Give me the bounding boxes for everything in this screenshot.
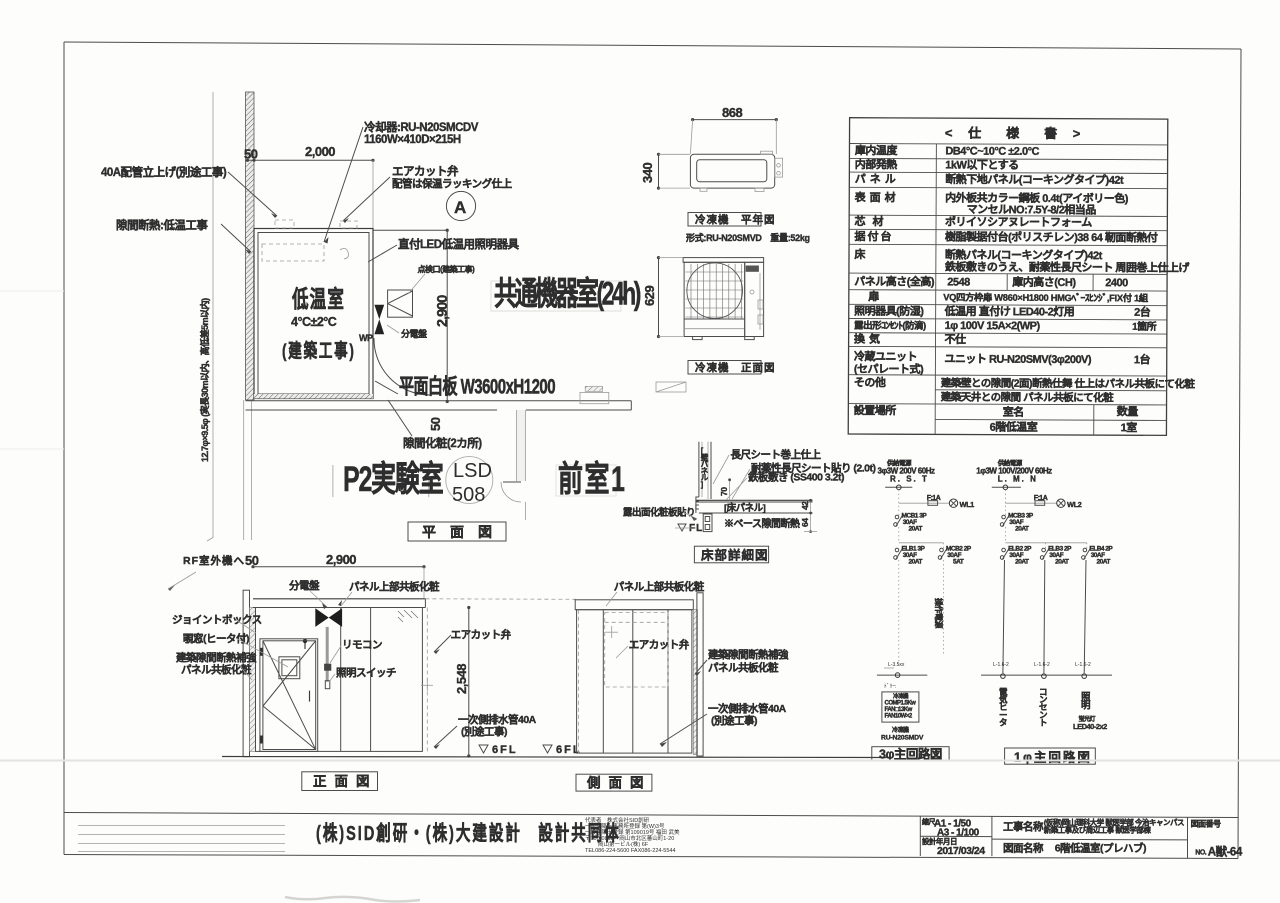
svg-text:20AT: 20AT: [1015, 559, 1029, 566]
svg-text:3φ主回路図: 3φ主回路図: [879, 746, 942, 761]
svg-text:リモコン: リモコン: [342, 639, 382, 651]
svg-text:1160W×410D×215H: 1160W×410D×215H: [364, 134, 461, 146]
svg-text:平面白板 W3600xH1200: 平面白板 W3600xH1200: [399, 374, 555, 398]
svg-text:70: 70: [719, 487, 729, 496]
svg-text:パネル上部共板化粧: パネル上部共板化粧: [614, 580, 705, 593]
small rects on wall near anteroom: [580, 392, 609, 403]
node: 1phi load terminals: [981, 674, 1112, 679]
svg-text:2400: 2400: [1105, 277, 1128, 289]
svg-text:代表者 株式会社SID創研: 代表者 株式会社SID創研: [585, 816, 650, 824]
svg-text:1kW以下とする: 1kW以下とする: [945, 158, 1018, 171]
svg-text:据付台: 据付台: [854, 229, 893, 243]
svg-text:マンセルNO:7.5Y-8/2相当品: マンセルNO:7.5Y-8/2相当品: [967, 202, 1097, 217]
svg-text:A獣-64: A獣-64: [1208, 845, 1243, 859]
svg-text:12.7φ×9.5φ (実長30m以内、高低差5m以内): 12.7φ×9.5φ (実長30m以内、高低差5m以内): [199, 298, 210, 462]
lamp WL1: [949, 499, 974, 509]
svg-text:床部詳細図: 床部詳細図: [701, 548, 769, 563]
svg-text:WL2: WL2: [1067, 500, 1082, 509]
wire: heater drop: [1003, 560, 1005, 673]
svg-text:点検口(建築工事): 点検口(建築工事): [418, 264, 476, 274]
wire: 3phi main drop: [898, 490, 900, 516]
svg-text:数量: 数量: [1117, 404, 1139, 418]
fuse F1A (3phi): [927, 495, 941, 505]
svg-text:換気: 換気: [854, 332, 884, 346]
svg-text:冷蔵ユニット: 冷蔵ユニット: [854, 349, 917, 363]
svg-text:樹脂製据付台(ポリスチレン)38 64 靭面断熱付: 樹脂製据付台(ポリスチレン)38 64 靭面断熱付: [945, 229, 1158, 244]
side view: [575, 600, 693, 610]
svg-text:低温室: 低温室: [291, 285, 345, 313]
wall panel section: [698, 442, 700, 497]
svg-text:パネル上部共板化粧: パネル上部共板化粧: [349, 580, 440, 593]
svg-text:1箇所: 1箇所: [1132, 320, 1157, 333]
svg-text:内外板共カラー鋼板 0.4t(アイボリー色): 内外板共カラー鋼板 0.4t(アイボリー色): [945, 190, 1129, 205]
svg-text:ポリイソシアヌレートフォーム: ポリイソシアヌレートフォーム: [945, 214, 1092, 229]
svg-text:50: 50: [428, 417, 443, 431]
svg-text:40A配管立上げ(別途工事): 40A配管立上げ(別途工事): [101, 165, 227, 179]
front view: top cap: [253, 598, 425, 600]
title: 3phi main circuit: [872, 746, 949, 761]
svg-text:(セパレート式): (セパレート式): [854, 362, 924, 376]
dims 42 / 64: [810, 500, 812, 531]
scale / date cells: [919, 816, 921, 856]
wall hatch: bottom wall insulation strip: [254, 394, 373, 399]
svg-text:L-1.6-2: L-1.6-2: [993, 662, 1009, 668]
door arc of cold room: [374, 338, 430, 395]
door front view: [260, 639, 318, 752]
svg-text:内部発熱: 内部発熱: [855, 157, 898, 171]
breaker MCB1 3P: [894, 513, 928, 533]
title: plan view: [408, 522, 506, 541]
svg-text:冷凍機: 冷凍機: [893, 692, 909, 700]
window in door: [279, 657, 300, 679]
title: 1phi main circuit: [1005, 748, 1096, 764]
svg-text:50: 50: [244, 147, 258, 162]
svg-text:6階低温室(プレハブ): 6階低温室(プレハブ): [1055, 842, 1146, 855]
svg-text:COMP1.5Kw: COMP1.5Kw: [885, 701, 917, 707]
svg-text:(株)SID創研・(株)大建設計 設計共同体: (株)SID創研・(株)大建設計 設計共同体: [316, 820, 621, 844]
svg-text:6階低温室: 6階低温室: [990, 420, 1038, 434]
title: floor detail: [694, 546, 768, 563]
node: 1-phase supply labels: [976, 458, 1052, 484]
svg-text:庫内温度: 庫内温度: [855, 143, 899, 157]
svg-text:照明: 照明: [1081, 692, 1091, 711]
svg-text:パネル: パネル: [855, 173, 900, 186]
svg-text:長尺シート巻上仕上: 長尺シート巻上仕上: [731, 448, 822, 461]
door leaf anteroom: [503, 481, 521, 483]
load box: refrigerator unit: [882, 692, 919, 722]
svg-text:建築壁との隙間(2面)断熱仕舞 仕上はパネル共板にて化粧: 建築壁との隙間(2面)断熱仕舞 仕上はパネル共板にて化粧: [940, 376, 1196, 390]
svg-text:露出形ｺﾝｾﾝﾄ(防滴): 露出形ｺﾝｾﾝﾄ(防滴): [854, 320, 926, 332]
feet: [693, 337, 703, 340]
ground line: [222, 757, 890, 758]
svg-text:冷凍機: 冷凍機: [892, 726, 909, 734]
svg-text:パネル高さ(全高): パネル高さ(全高): [854, 274, 935, 288]
hinges: [260, 648, 263, 656]
svg-text:2,000: 2,000: [305, 144, 335, 159]
wire: light drop: [1084, 560, 1086, 673]
svg-text:扉: 扉: [868, 289, 879, 303]
step at wall base: [696, 497, 699, 509]
svg-text:分電盤: 分電盤: [401, 328, 428, 339]
svg-text:新築工事及び周辺工事 獣医学部棟: 新築工事及び周辺工事 獣医学部棟: [1044, 825, 1152, 835]
drawing number cell: [1187, 817, 1189, 858]
svg-text:1φ 100V 15A×2(WP): 1φ 100V 15A×2(WP): [945, 320, 1041, 332]
svg-text:DB4°C~10°C ±2.0°C: DB4°C~10°C ±2.0°C: [945, 145, 1039, 157]
room: low-temp room double wall: [254, 229, 373, 399]
svg-text:1室: 1室: [1121, 420, 1138, 434]
title: condenser top view: [688, 213, 761, 227]
svg-text:鉄板敷きのうえ、耐薬性長尺シート 周囲巻上仕上げ: 鉄板敷きのうえ、耐薬性長尺シート 周囲巻上仕上げ: [945, 259, 1191, 274]
wire: MCB2 control drop: [942, 560, 944, 655]
svg-text:工事名称: 工事名称: [1003, 820, 1044, 833]
svg-text:NO.: NO.: [1195, 850, 1207, 857]
svg-text:建築天井との隙間 パネル共板にて化粧: 建築天井との隙間 パネル共板にて化粧: [940, 390, 1114, 404]
door pin: [303, 639, 307, 643]
handle: [309, 691, 311, 702]
svg-text:64: 64: [800, 518, 810, 527]
company info tiny block: [585, 816, 680, 854]
svg-text:[床パネル]: [床パネル]: [724, 502, 766, 514]
svg-text:2,548: 2,548: [454, 664, 469, 694]
condenser top view body: [690, 154, 774, 188]
svg-text:〒700-0818 岡山市北区蕃山町1-20: 〒700-0818 岡山市北区蕃山町1-20: [585, 834, 674, 842]
svg-text:WL1: WL1: [960, 500, 975, 509]
svg-text:建築隙間断熱補強: 建築隙間断熱補強: [707, 648, 789, 661]
wire: branch to pilot lamp: [899, 502, 949, 504]
svg-text:6FL: 6FL: [556, 744, 582, 756]
wire: 1phi main drop: [1004, 490, 1006, 516]
svg-text:A: A: [454, 198, 466, 217]
svg-text:パネル共板化粧: パネル共板化粧: [181, 663, 252, 676]
svg-text:20AT: 20AT: [1055, 559, 1069, 566]
svg-text:一次側排水管40A: 一次側排水管40A: [708, 702, 787, 715]
wire: junction split 3phi: [899, 542, 944, 544]
svg-text:(別途工事): (別途工事): [711, 714, 757, 727]
distribution board bowtie symbol: [374, 305, 384, 320]
svg-text:L-3.5xx: L-3.5xx: [888, 662, 905, 668]
svg-text:エアカット弁: エアカット弁: [451, 628, 512, 641]
svg-text:表面材: 表面材: [854, 190, 900, 204]
svg-text:868: 868: [722, 105, 742, 120]
svg-text:※ベース隙間断熱: ※ベース隙間断熱: [724, 517, 800, 530]
svg-text:ﾄﾞﾘｰ:: ﾄﾞﾘｰ:: [884, 683, 897, 690]
svg-text:L-1.6-2: L-1.6-2: [1075, 662, 1091, 668]
svg-text:WP: WP: [359, 333, 373, 343]
condenser front view: [683, 258, 764, 263]
svg-text:一次側排水管40A: 一次側排水管40A: [458, 713, 537, 726]
svg-text:冷凍機 正面図: 冷凍機 正面図: [695, 361, 776, 374]
svg-text:ユニット RU-N20SMV(3φ200V): ユニット RU-N20SMV(3φ200V): [944, 352, 1092, 366]
svg-text:その他: その他: [854, 375, 886, 389]
svg-text:2,900: 2,900: [326, 552, 356, 567]
svg-text:2017/03/24: 2017/03/24: [937, 845, 985, 857]
lamp WL2: [1057, 499, 1082, 509]
svg-text:R. S. T: R. S. T: [890, 475, 929, 484]
signature lines: [78, 825, 285, 827]
wire: outlet drop: [1043, 560, 1046, 673]
svg-text:共通機器室(24h): 共通機器室(24h): [494, 275, 640, 312]
room name: P2 lab: [332, 465, 334, 497]
svg-text:岡山第一ビル(株) 6F: 岡山第一ビル(株) 6F: [598, 840, 649, 848]
svg-text:LSD: LSD: [453, 460, 492, 482]
svg-text:1φ主回路図: 1φ主回路図: [1014, 749, 1092, 764]
right gap hatch: [693, 610, 697, 755]
svg-text:建築隙間断熱補強: 建築隙間断熱補強: [175, 651, 257, 664]
svg-text:正面図: 正面図: [313, 774, 378, 789]
svg-text:電気ヒータ: 電気ヒータ: [999, 687, 1008, 727]
svg-text:TEL086-224-5600 FAX086-224-554: TEL086-224-5600 FAX086-224-5544: [585, 848, 676, 854]
conduit below board: [326, 627, 329, 682]
section mark A: [446, 191, 475, 220]
svg-text:P2実験室: P2実験室: [343, 459, 443, 499]
breaker MCB2 2P: [938, 546, 972, 566]
breaker ELB4 2P: [1082, 546, 1114, 566]
door number circle LSD508: [446, 457, 493, 504]
svg-text:直付LED低温用照明器具: 直付LED低温用照明器具: [398, 237, 519, 251]
construction name cell: [992, 838, 1188, 841]
svg-text:(別途工事): (別途工事): [461, 725, 507, 738]
title block strip: [64, 813, 1238, 818]
title: condenser front view: [688, 361, 761, 375]
dim: 2900 vertical: [374, 229, 448, 231]
svg-text:図面番号: 図面番号: [1191, 819, 1221, 829]
breaker ELB1 3P: [894, 546, 926, 566]
svg-text:20AT: 20AT: [1097, 559, 1111, 566]
svg-text:(建築工事): (建築工事): [282, 340, 356, 362]
breaker ELB3 2P: [1040, 546, 1072, 566]
svg-text:操作電源: 操作電源: [934, 598, 944, 628]
svg-text:エアカット弁: エアカット弁: [392, 164, 459, 178]
breaker ELB2 2P: [1000, 546, 1032, 566]
svg-text:ジョイントボックス: ジョイントボックス: [172, 613, 262, 626]
svg-text:配管は保温ラッキング仕上: 配管は保温ラッキング仕上: [392, 177, 513, 190]
wire: junction split 1phi: [1005, 542, 1086, 544]
svg-text:床: 床: [854, 247, 866, 261]
svg-text:側面図: 側面図: [586, 775, 652, 791]
svg-text:508: 508: [452, 484, 485, 506]
svg-text:不仕: 不仕: [945, 332, 967, 346]
svg-text:断熱下地パネル(コーキングタイプ)42t: 断熱下地パネル(コーキングタイプ)42t: [945, 172, 1124, 187]
svg-text:パネル共板化粧: パネル共板化粧: [708, 661, 779, 674]
svg-text:L-1.6-2: L-1.6-2: [1034, 662, 1050, 668]
svg-text:L. M. N: L. M. N: [998, 475, 1038, 484]
base blocks: [703, 514, 712, 532]
node: 3phi load terminal: [877, 673, 927, 678]
hatch marks top-right corner: [398, 610, 418, 622]
svg-text:LED40-2x2: LED40-2x2: [1073, 722, 1107, 731]
svg-text:629: 629: [642, 286, 657, 306]
svg-text:断熱パネル(コーキングタイプ)42t: 断熱パネル(コーキングタイプ)42t: [945, 247, 1103, 262]
room name: anteroom1: [556, 465, 616, 496]
room name: common machine room: [491, 281, 621, 311]
svg-text:庫内高さ(CH): 庫内高さ(CH): [1012, 275, 1076, 289]
floor panel: [696, 499, 813, 501]
svg-text:20AT: 20AT: [909, 526, 923, 533]
svg-text:1台: 1台: [1134, 352, 1151, 366]
side panel: [745, 262, 764, 336]
svg-text:一級建築士事務所登録 第(W)3号: 一級建築士事務所登録 第(W)3号: [585, 822, 665, 830]
title: front view: [302, 772, 378, 791]
node: 1phi supply terminal: [992, 485, 1021, 490]
svg-text:< 仕 様 書 >: < 仕 様 書 >: [945, 125, 1086, 141]
svg-text:20AT: 20AT: [1015, 526, 1029, 533]
building wall lines below room: [246, 400, 632, 402]
svg-text:冷却器:RU-N20SMCDV: 冷却器:RU-N20SMCDV: [364, 120, 479, 134]
svg-text:設置場所: 設置場所: [854, 403, 897, 417]
pipe stubs on top wall: [275, 220, 294, 228]
svg-text:コンセント: コンセント: [1039, 687, 1048, 727]
svg-text:平面図: 平面図: [422, 524, 506, 540]
distribution board bowtie front: [315, 608, 328, 627]
svg-text:照明器具(防湿): 照明器具(防湿): [854, 304, 924, 318]
wire: down to junction 1phi: [1004, 527, 1006, 543]
svg-text:前室1: 前室1: [558, 459, 626, 499]
svg-text:分電盤: 分電盤: [289, 579, 320, 592]
svg-text:FAN□13Kw: FAN□13Kw: [885, 707, 913, 713]
node: 3phi supply terminal: [885, 485, 912, 490]
svg-text:照明スイッチ: 照明スイッチ: [336, 667, 396, 679]
dim 2548: [468, 608, 470, 757]
title: side view: [576, 774, 652, 791]
wire: down to junction: [898, 527, 900, 543]
svg-text:芯材: 芯材: [855, 214, 891, 228]
wire: branch to pilot lamp 1phi: [1005, 502, 1056, 504]
front view: left building pillar: [243, 590, 249, 757]
svg-text:RU-N20SMDV: RU-N20SMDV: [881, 735, 924, 742]
wall: exterior insulated wall column above room: [246, 92, 255, 400]
svg-text:FL: FL: [689, 523, 703, 534]
interior wall between P2 lab and anteroom: [516, 410, 518, 481]
svg-text:形式:RU-N20SMVD 重量:52kg: 形式:RU-N20SMVD 重量:52kg: [686, 232, 810, 243]
spec table outer border: [848, 118, 1168, 436]
svg-text:20AT: 20AT: [909, 559, 923, 566]
svg-text:一級建築士登録 第109019号 福田 武美: 一級建築士登録 第109019号 福田 武美: [585, 828, 680, 836]
wire: thin refrigerant pipe line running down to RF: [212, 92, 214, 538]
front view: panel body: [256, 608, 423, 752]
svg-text:冷凍機 平年図: 冷凍機 平年図: [695, 213, 776, 226]
svg-text:鉄板敷き (SS400 3.2t): 鉄板敷き (SS400 3.2t): [748, 471, 844, 484]
wire: ELB1 load drop: [898, 560, 900, 668]
dim: top 50 / 2000: [245, 159, 374, 161]
ceiling dashed line across: [425, 598, 576, 601]
svg-text:2台: 2台: [1134, 305, 1151, 319]
svg-text:室名: 室名: [1003, 405, 1024, 419]
inspection port box: [388, 290, 413, 317]
fuse F1A (1phi): [1034, 495, 1048, 505]
svg-text:340: 340: [640, 163, 655, 183]
svg-text:覗窓(ヒータ付): 覗窓(ヒータ付): [183, 632, 249, 645]
FL marks: [479, 745, 488, 753]
svg-text:42: 42: [800, 501, 810, 510]
svg-text:隙間断熱:低温工事: 隙間断熱:低温工事: [116, 218, 208, 232]
svg-text:低温用 直付け LED40-2灯用: 低温用 直付け LED40-2灯用: [944, 304, 1075, 319]
svg-text:2,900: 2,900: [435, 295, 451, 327]
dim 70: [729, 480, 731, 501]
node: 3-phase supply labels: [878, 458, 935, 484]
svg-text:隙間化粧(2カ所): 隙間化粧(2カ所): [403, 436, 482, 450]
svg-text:2548: 2548: [947, 276, 970, 288]
dashed unit inside: [605, 613, 668, 688]
breaker MCB3 3P: [1000, 513, 1034, 533]
svg-text:4°C±2°C: 4°C±2°C: [291, 315, 337, 329]
svg-text:5AT: 5AT: [953, 559, 964, 566]
svg-text:エアカット弁: エアカット弁: [629, 638, 690, 651]
svg-text:FAN10W×2: FAN10W×2: [885, 714, 913, 720]
svg-text:6FL: 6FL: [492, 744, 518, 756]
svg-text:RF室外機へ: RF室外機へ: [183, 554, 245, 567]
cooler: dashed cooler unit footprint inside room: [262, 244, 324, 261]
svg-text:図面名称: 図面名称: [1003, 842, 1044, 855]
svg-text:VQ四方枠扉 W860×H1800 HMGﾍﾞｰｽﾋﾝｼﾞ,: VQ四方枠扉 W860×H1800 HMGﾍﾞｰｽﾋﾝｼﾞ,FIX付 1組: [943, 291, 1149, 303]
